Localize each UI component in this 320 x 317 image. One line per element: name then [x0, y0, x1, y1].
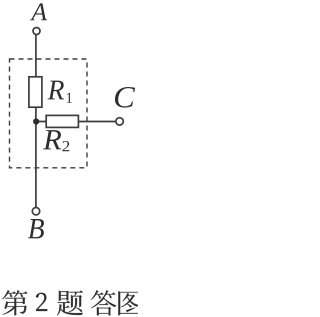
- terminal A (open circle): [33, 28, 40, 35]
- caption char 第: [2, 290, 27, 315]
- label R2 subscript 2: [62, 141, 69, 151]
- caption char 题: [57, 290, 83, 315]
- junction node dot: [33, 118, 39, 124]
- wire: junction right to terminal C: [36, 121, 116, 123]
- wire: resistor R1 through junction down to terminal B: [35, 107, 37, 207]
- node B label: [28, 219, 44, 238]
- resistor R1 (vertical box): [29, 77, 42, 107]
- node A label: [30, 3, 47, 20]
- label R2 "R": [43, 130, 61, 149]
- node C label: [115, 87, 135, 108]
- label R1 subscript 1: [67, 93, 72, 103]
- label R1 "R": [48, 81, 65, 100]
- caption char 2: [36, 293, 47, 311]
- caption char 图: [118, 291, 141, 315]
- dashed box (equivalent-source enclosure): [10, 59, 88, 168]
- caption char 答: [91, 290, 116, 315]
- terminal B (open circle): [32, 208, 39, 215]
- wire: terminal A down to resistor R1: [35, 35, 37, 77]
- resistor R2 (horizontal box): [46, 115, 78, 127]
- terminal C (open circle): [116, 118, 123, 125]
